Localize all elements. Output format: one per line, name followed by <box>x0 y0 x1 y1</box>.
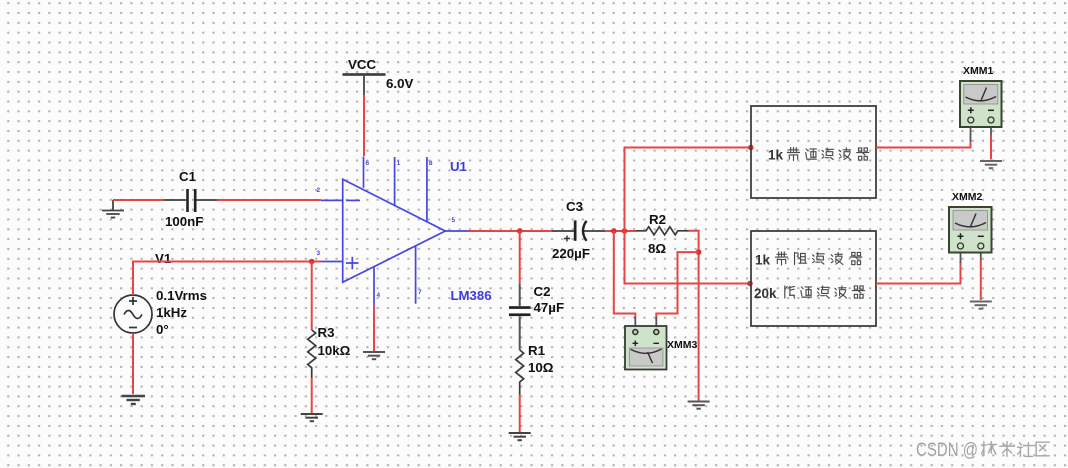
svg-text:C2: C2 <box>534 284 551 299</box>
svg-text:6: 6 <box>366 160 370 167</box>
svg-text:6.0V: 6.0V <box>386 76 413 91</box>
wire XMM2 right to ground <box>980 253 982 262</box>
svg-text:0°: 0° <box>156 322 169 337</box>
U1 pin 1 stub (top) <box>394 157 396 206</box>
svg-text:8: 8 <box>429 160 433 167</box>
node at filter2 input <box>747 281 753 287</box>
node at filter1 input <box>748 145 754 151</box>
resistor R3 <box>308 330 316 378</box>
svg-text:VCC: VCC <box>348 57 376 72</box>
capacitor C2 <box>509 284 531 350</box>
svg-text:XMM1: XMM1 <box>963 65 993 77</box>
wire U1 pin4 to GND4 <box>373 305 375 351</box>
ground GND7 (below XMM1) <box>980 161 1002 168</box>
svg-text:10Ω: 10Ω <box>528 360 554 375</box>
wire filter2 to XMM2 <box>876 262 961 284</box>
U1 pin 7 stub (bottom) <box>415 246 417 303</box>
wire filter1 to XMM1 <box>876 141 971 148</box>
resistor R2 <box>636 227 688 235</box>
ground GND4 (below U1) <box>363 352 385 359</box>
wire XMM3 right terminal <box>656 252 698 318</box>
wire R3 to GND3 <box>311 378 313 413</box>
ground GND5 (below R2 net) <box>688 402 710 409</box>
svg-text:XMM2: XMM2 <box>952 191 982 203</box>
U1 pin 6 stub (top, VCC) <box>363 157 365 188</box>
svg-text:C3: C3 <box>566 199 583 214</box>
U1 pin 5 stub (output) <box>445 230 468 232</box>
wire XMM1 right to ground <box>990 127 992 136</box>
svg-text:R3: R3 <box>318 325 335 340</box>
svg-text:R2: R2 <box>649 212 666 227</box>
node junction to filters <box>622 228 628 234</box>
wire R1 to GND6 <box>519 395 521 433</box>
ground GND3 (below R3) <box>301 414 323 421</box>
ground GND6 (below R1) <box>509 433 531 440</box>
wire R2 to ground net <box>689 231 699 401</box>
svg-text:4: 4 <box>377 292 381 299</box>
ground GND2 (below V1) <box>122 396 146 404</box>
text 1k band-pass filter (1k&#24102;&#36890;&#28388;&#27874;&#22120;) <box>768 148 869 163</box>
wire XMM3 left terminal <box>614 231 636 318</box>
node junction V1/R3 <box>309 259 315 265</box>
svg-text:R1: R1 <box>528 343 546 358</box>
U1 inverting minus marker <box>346 199 360 201</box>
U1 pin 3 stub (non-inverting input) <box>321 261 343 263</box>
node junction R2/XMM3 right <box>696 249 702 255</box>
wire V1 to U1 pin3 <box>133 262 321 296</box>
U1 pin 4 stub (bottom, GND) <box>373 267 375 305</box>
wire to band-stop filter input <box>625 231 750 284</box>
power VCC symbol <box>343 57 386 95</box>
wire U1 output to C3 <box>468 230 552 232</box>
wire GND1 to C1 <box>113 199 164 201</box>
ground GND8 (below XMM2) <box>970 302 992 309</box>
text 20k low-pass filter line <box>754 286 865 301</box>
wire VCC to U1 pin6 <box>363 95 365 156</box>
svg-text:10kΩ: 10kΩ <box>318 343 351 358</box>
ground GND1 (left of C1) <box>102 200 124 218</box>
svg-text:C1: C1 <box>179 169 197 184</box>
multimeter XMM2 <box>949 207 992 253</box>
svg-text:LM386: LM386 <box>451 288 492 303</box>
svg-text:100nF: 100nF <box>165 214 203 229</box>
svg-text:2: 2 <box>317 187 321 194</box>
multimeter XMM3 <box>625 326 667 370</box>
svg-text:XMM3: XMM3 <box>667 339 697 351</box>
svg-text:0.1Vrms: 0.1Vrms <box>156 288 207 303</box>
node junction output/C2 <box>517 228 523 234</box>
svg-text:220µF: 220µF <box>552 246 590 261</box>
watermark CSDN @jishu community <box>916 440 1049 461</box>
svg-text:5: 5 <box>452 217 456 224</box>
svg-text:CSDN @: CSDN @ <box>916 440 978 461</box>
node junction to XMM3 left <box>611 228 617 234</box>
block: 1k band-pass filter <box>751 106 876 198</box>
op-amp U1 LM386 triangle <box>343 179 446 282</box>
svg-text:1kHz: 1kHz <box>156 305 187 320</box>
capacitor C1 <box>164 189 217 212</box>
wire V1 to GND2 <box>132 333 134 394</box>
svg-text:8Ω: 8Ω <box>648 241 666 256</box>
capacitor C3 (polarized) <box>552 220 605 241</box>
multimeter XMM1 <box>960 81 1002 127</box>
svg-text:U1: U1 <box>450 159 467 174</box>
svg-text:20k: 20k <box>754 286 777 301</box>
block: 1k band-stop / 20k low-pass filter <box>751 231 876 326</box>
svg-text:7: 7 <box>418 289 422 296</box>
svg-text:1: 1 <box>397 160 401 167</box>
svg-text:1k: 1k <box>768 148 784 163</box>
wire C2 branch <box>519 231 521 284</box>
wire C3 to R2 <box>605 230 636 232</box>
wire node to R3 <box>311 262 313 331</box>
svg-text:47µF: 47µF <box>534 300 565 315</box>
wire C1 to U1 pin2 <box>217 199 321 201</box>
U1 pin 8 stub (top) <box>426 157 428 222</box>
svg-text:3: 3 <box>317 250 321 257</box>
source V1 <box>114 295 152 333</box>
resistor R1 <box>516 350 524 395</box>
svg-text:V1: V1 <box>155 251 172 266</box>
U1 non-inverting plus marker <box>346 257 359 270</box>
wire to band-pass filter input <box>625 148 751 232</box>
text 1k band-stop filter line <box>755 252 862 268</box>
U1 pin 2 stub (inverting input) <box>321 199 343 201</box>
svg-text:1k: 1k <box>755 253 771 268</box>
